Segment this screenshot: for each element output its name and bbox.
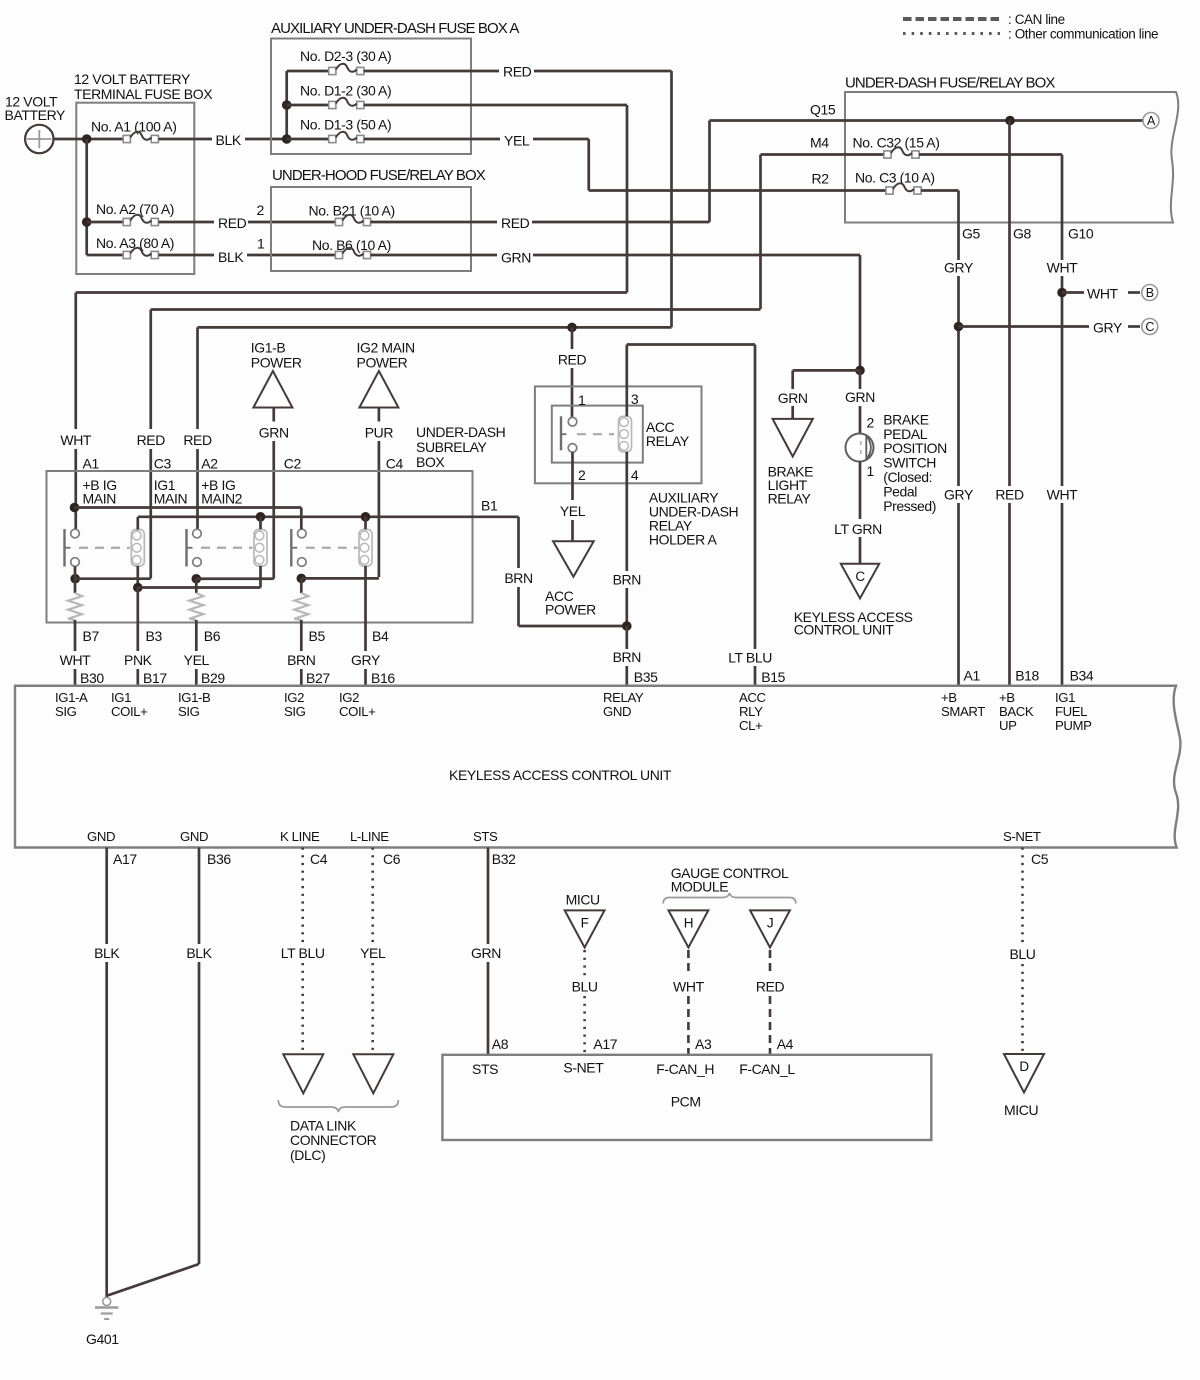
- svg-text:ACC: ACC: [739, 690, 767, 705]
- svg-text:UNDER-DASH: UNDER-DASH: [416, 424, 505, 440]
- svg-text:GRN: GRN: [778, 390, 808, 406]
- svg-text:: Other communication line: : Other communication line: [1008, 27, 1158, 42]
- svg-text:: CAN line: : CAN line: [1008, 12, 1065, 27]
- wire C6 L-line YEL: [371, 848, 374, 944]
- keyless access control unit: [15, 686, 1180, 848]
- svg-text:A: A: [1147, 114, 1156, 128]
- wire D2-3 to A2 relay feed: [198, 326, 672, 329]
- svg-text:B29: B29: [201, 670, 225, 686]
- svg-text:WHT: WHT: [1047, 486, 1079, 502]
- svg-text:MODULE: MODULE: [671, 878, 729, 894]
- svg-text:COIL+: COIL+: [111, 704, 148, 719]
- wire pin2 YEL to ACC POWER: [571, 452, 574, 500]
- svg-text:B: B: [1146, 286, 1154, 300]
- svg-text:IG2 MAIN: IG2 MAIN: [357, 340, 415, 356]
- wire M4 to C3 sub: [151, 308, 761, 311]
- svg-text:B5: B5: [309, 628, 326, 644]
- svg-text:C: C: [855, 569, 865, 584]
- svg-text:K LINE: K LINE: [280, 829, 320, 844]
- svg-text:RED: RED: [501, 215, 530, 231]
- brake pedal position switch: [846, 434, 874, 462]
- svg-text:PCM: PCM: [671, 1094, 701, 1110]
- wire pin3 to B15: [627, 343, 755, 346]
- svg-text:PUR: PUR: [365, 425, 394, 441]
- brake light relay symbol: [791, 406, 794, 419]
- svg-text:No. C3 (10 A): No. C3 (10 A): [855, 170, 935, 186]
- svg-text:WHT: WHT: [1087, 286, 1119, 302]
- wire pin3 feed: [625, 345, 628, 417]
- wire coil1 to coil2 IG1 COIL+: [138, 586, 261, 589]
- wire B3 PNK to B17: [136, 588, 139, 652]
- legend other communication line: [903, 32, 1000, 35]
- svg-text:STS: STS: [472, 1061, 498, 1077]
- svg-text:COIL+: COIL+: [339, 704, 376, 719]
- node A2 branch: [82, 217, 92, 227]
- svg-text:GRN: GRN: [845, 389, 875, 405]
- wire F-CAN_H WHT dashed: [687, 950, 690, 976]
- svg-text:3: 3: [631, 391, 639, 407]
- svg-text:2: 2: [867, 415, 875, 431]
- connector D MICU: [1004, 1054, 1044, 1093]
- ACC relay inner box: [552, 406, 643, 463]
- svg-text:HOLDER A: HOLDER A: [649, 531, 718, 547]
- svg-text:F-CAN_H: F-CAN_H: [656, 1061, 714, 1077]
- wire switch1 bottom to C3: [70, 574, 80, 584]
- wire RED to ACC pin1: [571, 327, 574, 349]
- svg-text:G401: G401: [86, 1331, 119, 1347]
- svg-text:B1: B1: [481, 497, 498, 513]
- svg-text:BACK: BACK: [999, 704, 1034, 719]
- svg-text:RED: RED: [756, 979, 785, 995]
- wire A2 drop RED: [196, 327, 199, 429]
- svg-text:STS: STS: [473, 829, 498, 844]
- svg-text:12 VOLT BATTERY: 12 VOLT BATTERY: [74, 71, 191, 87]
- svg-text:IG2: IG2: [339, 690, 359, 705]
- wire bus down: [85, 139, 88, 255]
- wire S-NET BLU dotted: [583, 950, 586, 976]
- svg-text:SUBRELAY: SUBRELAY: [416, 439, 488, 455]
- svg-text:IG1-B: IG1-B: [251, 340, 286, 356]
- wire BRN to B35: [625, 626, 628, 649]
- svg-text:PNK: PNK: [124, 652, 153, 668]
- svg-text:LT BLU: LT BLU: [728, 649, 772, 665]
- svg-text:A17: A17: [593, 1036, 617, 1052]
- node D1-3 tap: [282, 134, 292, 144]
- svg-text:BRN: BRN: [287, 652, 315, 668]
- svg-text:BRN: BRN: [613, 649, 641, 665]
- connector C: [1142, 319, 1158, 335]
- svg-text:GND: GND: [180, 829, 208, 844]
- svg-text:BLU: BLU: [572, 979, 598, 995]
- svg-text:SIG: SIG: [178, 704, 200, 719]
- svg-text:RED: RED: [558, 352, 587, 368]
- svg-text:1: 1: [578, 392, 586, 408]
- node WHT to B: [1057, 288, 1067, 298]
- wire A1 out BLK: [159, 138, 213, 141]
- wire D1-2 to A1 relay feed: [76, 291, 627, 294]
- wire LT GRN: [859, 462, 862, 520]
- wire B32 STS GRN: [487, 848, 490, 945]
- svg-text:B3: B3: [146, 628, 163, 644]
- svg-text:(DLC): (DLC): [290, 1147, 325, 1163]
- svg-text:WHT: WHT: [1047, 260, 1079, 276]
- svg-text:GRY: GRY: [944, 486, 974, 502]
- svg-text:UNDER-HOOD FUSE/RELAY BOX: UNDER-HOOD FUSE/RELAY BOX: [272, 167, 486, 184]
- svg-text:GND: GND: [87, 829, 115, 844]
- svg-text:UNDER-DASH FUSE/RELAY BOX: UNDER-DASH FUSE/RELAY BOX: [845, 75, 1055, 92]
- wire G10 WHT down: [1061, 155, 1064, 261]
- svg-text:C2: C2: [284, 456, 302, 472]
- svg-text:SIG: SIG: [284, 704, 306, 719]
- ACC relay coil: [619, 416, 632, 452]
- svg-text:M4: M4: [810, 135, 829, 151]
- svg-text:MAIN: MAIN: [154, 491, 187, 507]
- svg-text:1: 1: [257, 236, 265, 252]
- connector C to keyless unit: [841, 564, 879, 599]
- wire D2-3 out RED: [364, 70, 499, 73]
- svg-text:2: 2: [257, 202, 265, 218]
- wire switch3 bottom to C4: [297, 574, 307, 584]
- node G8 tap: [1005, 116, 1015, 126]
- svg-text:AUXILIARY UNDER-DASH FUSE BOX: AUXILIARY UNDER-DASH FUSE BOX A: [271, 20, 519, 37]
- resistor R relay1: [68, 593, 82, 620]
- wire B36 diagonal join: [108, 1264, 200, 1296]
- svg-text:GND: GND: [603, 704, 631, 719]
- svg-text:2: 2: [578, 467, 586, 483]
- wire coil3 stub: [364, 517, 367, 529]
- svg-text:RLY: RLY: [739, 704, 763, 719]
- node GRY to C: [954, 322, 964, 332]
- connector A: [1143, 113, 1159, 129]
- svg-text:POWER: POWER: [545, 602, 596, 618]
- svg-text:BATTERY: BATTERY: [5, 107, 67, 123]
- svg-text:+B: +B: [941, 690, 957, 705]
- svg-text:CONNECTOR: CONNECTOR: [290, 1132, 377, 1148]
- svg-text:B16: B16: [371, 670, 395, 686]
- svg-text:WHT: WHT: [60, 652, 92, 668]
- wire switch2 bottom to C2: [192, 574, 202, 584]
- svg-text:GRY: GRY: [351, 652, 381, 668]
- svg-text:B36: B36: [207, 851, 231, 867]
- svg-text:D: D: [1019, 1059, 1029, 1074]
- switch stubs to resistors: [74, 567, 77, 594]
- svg-text:MAIN2: MAIN2: [201, 491, 242, 507]
- wire M4 vertical: [759, 155, 762, 310]
- svg-text:B4: B4: [372, 628, 389, 644]
- svg-text:KEYLESS ACCESS CONTROL UNIT: KEYLESS ACCESS CONTROL UNIT: [449, 767, 672, 783]
- ACC POWER symbol: [553, 541, 594, 577]
- svg-text:IG1: IG1: [111, 690, 131, 705]
- wire GRY to C: [959, 325, 1090, 328]
- connector J: [750, 910, 790, 947]
- svg-text:B32: B32: [492, 851, 516, 867]
- svg-text:GRN: GRN: [501, 250, 531, 266]
- svg-text:B30: B30: [80, 670, 104, 686]
- wire coil common B1: [136, 517, 139, 530]
- wire GRN down to brake switch: [859, 255, 862, 366]
- resistor R relay2: [189, 593, 203, 620]
- svg-text:A1: A1: [964, 668, 981, 684]
- wire D1-2 out: [364, 104, 627, 107]
- svg-text:H: H: [684, 915, 693, 930]
- svg-text:POWER: POWER: [251, 355, 302, 371]
- svg-text:A2: A2: [201, 456, 218, 472]
- svg-text:L-LINE: L-LINE: [350, 829, 389, 844]
- svg-text:IG1: IG1: [1055, 690, 1075, 705]
- svg-text:SMART: SMART: [941, 704, 985, 719]
- svg-text:S-NET: S-NET: [1003, 829, 1041, 844]
- wire C5 S-NET BLU dotted: [1021, 848, 1024, 945]
- svg-text:MICU: MICU: [1004, 1102, 1038, 1118]
- wire A1 drop: [74, 293, 77, 430]
- svg-text:No. D1-2 (30 A): No. D1-2 (30 A): [300, 83, 391, 99]
- svg-text:BLK: BLK: [94, 945, 120, 961]
- wire WHT to B: [1062, 291, 1084, 294]
- bus vertical in aux box: [285, 71, 288, 139]
- svg-text:LT BLU: LT BLU: [281, 945, 325, 961]
- svg-text:A17: A17: [113, 851, 137, 867]
- node relay gnd join: [622, 621, 632, 631]
- wire YEL drop to R2: [587, 139, 590, 191]
- svg-text:FUEL: FUEL: [1055, 704, 1087, 719]
- svg-text:BRN: BRN: [613, 571, 641, 587]
- svg-text:F-CAN_L: F-CAN_L: [739, 1061, 795, 1077]
- svg-text:LT GRN: LT GRN: [834, 521, 882, 537]
- svg-text:BLU: BLU: [1009, 946, 1035, 962]
- wire B21 out RED: [371, 221, 498, 224]
- svg-text:J: J: [767, 915, 773, 930]
- relay IG1-B: [185, 529, 187, 567]
- svg-text:BRN: BRN: [504, 570, 532, 586]
- svg-text:G10: G10: [1068, 226, 1094, 242]
- svg-text:RELAY: RELAY: [646, 433, 690, 449]
- svg-text:CONTROL UNIT: CONTROL UNIT: [794, 622, 895, 638]
- wire A2 out RED: [159, 221, 215, 224]
- relay IG2: [290, 529, 292, 567]
- svg-text:B17: B17: [143, 670, 167, 686]
- svg-text:RED: RED: [183, 432, 212, 448]
- svg-text:G5: G5: [962, 226, 980, 242]
- svg-text:B6: B6: [204, 628, 221, 644]
- wire Q15 vertical: [708, 121, 711, 223]
- wire coil1 bottom: [136, 566, 139, 588]
- svg-text:BLK: BLK: [218, 249, 244, 265]
- node brake branch: [855, 366, 865, 376]
- svg-text:RED: RED: [218, 215, 247, 231]
- svg-text:S-NET: S-NET: [563, 1060, 604, 1076]
- svg-text:B27: B27: [306, 670, 330, 686]
- svg-text:WHT: WHT: [673, 979, 705, 995]
- svg-text:GRY: GRY: [1093, 320, 1123, 336]
- svg-text:RELAY: RELAY: [768, 491, 812, 507]
- svg-text:YEL: YEL: [504, 133, 530, 149]
- legend CAN line: [903, 17, 1000, 21]
- svg-text:CL+: CL+: [739, 718, 763, 733]
- svg-text:WHT: WHT: [60, 432, 92, 448]
- svg-text:GRY: GRY: [944, 260, 974, 276]
- svg-text:BOX: BOX: [416, 454, 445, 470]
- wire A17 BLK to G401: [105, 848, 108, 945]
- wire D1-2 down: [626, 105, 629, 293]
- PCM box: [442, 1055, 931, 1140]
- svg-text:No. B6 (10 A): No. B6 (10 A): [312, 237, 391, 253]
- wire coil2 stub: [259, 517, 262, 529]
- svg-text:G8: G8: [1013, 226, 1031, 242]
- svg-text:RED: RED: [995, 486, 1024, 502]
- wire pin4 BRN down: [625, 452, 628, 571]
- svg-text:PUMP: PUMP: [1055, 718, 1092, 733]
- wire F-CAN_L RED dashed: [769, 950, 772, 976]
- node A1 bus: [70, 503, 80, 513]
- node coil3 top: [361, 512, 371, 522]
- wire B6 YEL to B29: [195, 620, 198, 651]
- svg-text:C5: C5: [1031, 851, 1049, 867]
- wire C4 K-line LT BLU: [301, 848, 304, 944]
- wire battery to fuse A1: [54, 138, 124, 141]
- svg-text:POWER: POWER: [357, 355, 408, 371]
- svg-text:RED: RED: [503, 64, 532, 80]
- svg-text:SIG: SIG: [55, 704, 77, 719]
- svg-text:C3: C3: [154, 456, 172, 472]
- relay IG1 main: [63, 529, 65, 567]
- wire B6 out GRN: [371, 254, 498, 257]
- svg-text:YEL: YEL: [560, 503, 586, 519]
- wire D1-3 out YEL: [364, 138, 500, 141]
- wire B36 BLK: [198, 848, 201, 945]
- wire G8 down: [1008, 121, 1011, 487]
- svg-text:B35: B35: [634, 669, 658, 685]
- svg-text:No. D1-3 (50 A): No. D1-3 (50 A): [300, 117, 391, 133]
- svg-text:RELAY: RELAY: [603, 690, 644, 705]
- svg-text:4: 4: [631, 467, 639, 483]
- svg-text:+B: +B: [999, 690, 1015, 705]
- svg-text:B34: B34: [1070, 668, 1094, 684]
- node coil2 top: [256, 512, 266, 522]
- svg-text:A1: A1: [83, 456, 100, 472]
- wire +B bus: [75, 506, 302, 509]
- svg-text:MICU: MICU: [566, 892, 600, 908]
- node D1-2 tap: [282, 100, 292, 110]
- svg-text:A3: A3: [695, 1036, 712, 1052]
- svg-text:IG2: IG2: [284, 690, 304, 705]
- svg-text:MAIN: MAIN: [83, 491, 116, 507]
- wire C3 sub drop RED: [149, 310, 152, 430]
- connector B: [1142, 285, 1158, 301]
- svg-text:BLK: BLK: [186, 945, 212, 961]
- wire coil3 bottom B4: [364, 566, 367, 632]
- svg-text:C: C: [1145, 320, 1154, 334]
- svg-text:No. D2-3 (30 A): No. D2-3 (30 A): [300, 48, 391, 64]
- svg-text:A4: A4: [777, 1036, 794, 1052]
- wire D2-3 RED down: [670, 71, 673, 327]
- svg-text:YEL: YEL: [360, 945, 386, 961]
- ACC relay switch: [560, 416, 562, 450]
- wire brake branch: [793, 369, 860, 372]
- wire A3 out BLK: [159, 254, 215, 257]
- svg-text:B18: B18: [1015, 668, 1039, 684]
- node battery bus: [82, 134, 92, 144]
- auxiliary under-dash relay holder A box: [535, 386, 702, 483]
- DLC triangle L: [353, 1054, 393, 1093]
- svg-text:UP: UP: [999, 718, 1017, 733]
- connector H: [669, 910, 709, 947]
- svg-text:R2: R2: [812, 171, 830, 187]
- svg-text:Q15: Q15: [810, 102, 836, 118]
- wire GRN to pedal switch: [859, 370, 862, 389]
- svg-text:GRN: GRN: [259, 425, 289, 441]
- svg-text:IG1-A: IG1-A: [55, 690, 88, 705]
- svg-text:C4: C4: [310, 851, 328, 867]
- svg-text:B7: B7: [83, 628, 100, 644]
- resistor R relay3: [294, 593, 308, 620]
- svg-text:IG1-B: IG1-B: [178, 690, 211, 705]
- wire C4 PUR: [378, 408, 381, 422]
- svg-text:C6: C6: [383, 851, 401, 867]
- svg-text:B15: B15: [761, 669, 785, 685]
- svg-text:1: 1: [867, 463, 875, 479]
- wire C2 GRN: [272, 408, 275, 422]
- wire G5 GRY down: [957, 191, 960, 261]
- svg-text:GRN: GRN: [471, 945, 501, 961]
- DLC triangle K: [283, 1054, 323, 1093]
- ground G401: [103, 1298, 111, 1306]
- DLC brace: [278, 1100, 398, 1112]
- svg-text:F: F: [581, 915, 589, 930]
- node ACC pin1 feed: [567, 323, 577, 333]
- svg-text:C4: C4: [386, 456, 404, 472]
- svg-text:BLK: BLK: [216, 132, 242, 148]
- svg-text:YEL: YEL: [184, 652, 210, 668]
- svg-text:RED: RED: [137, 432, 166, 448]
- svg-text:Pressed): Pressed): [883, 498, 936, 514]
- wire B5 BRN to B27: [300, 620, 303, 651]
- wire B7 WHT to B30: [74, 620, 77, 632]
- svg-text:A8: A8: [492, 1036, 509, 1052]
- svg-text:TERMINAL FUSE BOX: TERMINAL FUSE BOX: [74, 86, 213, 102]
